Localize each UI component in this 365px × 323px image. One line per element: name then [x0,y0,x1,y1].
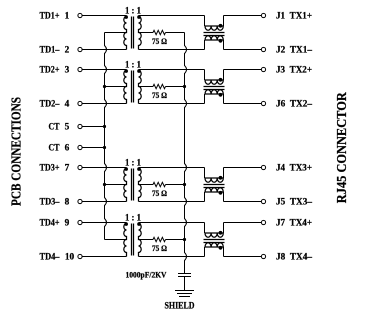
choke L1 bottom winding [205,36,224,40]
choke L2 top phasing dot [219,78,223,82]
svg-text:J6 TX2–: J6 TX2– [276,100,312,110]
wire TD1- to T1 primary bottom [82,49,126,51]
choke L1 core [204,33,225,36]
choke L2 input leads [204,70,206,104]
transformer T4 secondary phasing dot [137,222,141,226]
terminal pin 6 (CT) [78,145,82,149]
choke L2 core [204,87,225,90]
wire choke L1 to J1 [224,15,262,17]
wire capacitor to ground [184,277,186,291]
svg-text:TD1+: TD1+ [40,12,60,22]
svg-text:5: 5 [65,123,70,133]
wire TD3- to T3 primary bottom [82,201,126,203]
terminal pin 10 (TD4-) [78,254,82,258]
wire choke L2 to J6 [224,103,262,105]
terminal pin 9 (TD4+) [78,220,82,224]
svg-text:SHIELD: SHIELD [165,301,195,311]
transformer T3 secondary phasing dot [137,167,141,171]
terminal J3 (TX2+) [261,67,265,71]
wire T1 secondary bottom to choke L1 [139,49,205,51]
choke L1 output leads [223,16,225,50]
transformer T2 core [132,71,134,103]
svg-text:J1 TX1+: J1 TX1+ [276,12,312,22]
svg-text:CT: CT [49,123,61,133]
wire T1 primary center tap to CT bus [105,32,127,34]
transformer T3 core [132,169,134,201]
transformer T2 secondary winding [139,70,142,104]
wire CT pin 5 to CT bus [82,126,104,128]
choke L2 output leads [223,70,225,104]
transformer T4 primary winding [124,223,127,257]
terminal pin 7 (TD3+) [78,165,82,169]
wire choke L4 to J7 [224,222,262,224]
svg-text:7: 7 [65,164,70,174]
svg-text:TD4+: TD4+ [40,219,60,229]
transformer T3 primary phasing dot [124,167,128,171]
terminal pin 4 (TD2-) [78,101,82,105]
choke L3 top phasing dot [219,176,223,180]
svg-text:J4 TX3+: J4 TX3+ [276,164,312,174]
terminal J5 (TX3-) [261,199,265,203]
svg-text:J3 TX2+: J3 TX2+ [276,66,312,76]
wire TD2+ to T2 primary top [82,69,126,71]
transformer T1 secondary phasing dot [137,15,141,19]
svg-text:6: 6 [65,144,70,154]
svg-text:3: 3 [65,66,70,76]
terminal J2 (TX1-) [261,47,265,51]
terminal pin 3 (TD2+) [78,67,82,71]
wire T2 secondary top to choke L2 [139,69,205,71]
transformer T3 secondary winding [139,168,142,202]
choke L3 output leads [223,168,225,202]
capacitor C1 1000pF/2KV plates [178,274,191,277]
resistor R3 75 ohm on T3 secondary center tap [139,182,185,186]
wire choke L1 to J2 [224,49,262,51]
wire T3 primary center tap to CT bus [105,184,127,186]
wire T4 primary center tap to CT bus [105,239,127,241]
wire T3 secondary top to choke L3 [139,167,205,169]
wire TD4+ to T4 primary top [82,222,126,224]
svg-text:1000pF/2KV: 1000pF/2KV [126,271,167,280]
wire choke L4 to J8 [224,256,262,258]
resistor R1 75 ohm on T1 secondary center tap [139,30,185,34]
svg-text:8: 8 [65,198,70,208]
transformer T4 primary phasing dot [124,222,128,226]
svg-text:J2 TX1–: J2 TX1– [276,46,312,56]
wire choke L3 to J4 [224,167,262,169]
choke L2 bottom winding [205,90,224,94]
svg-text:9: 9 [65,219,70,229]
junction CT bus / pin 6 [103,146,106,149]
choke L2 top winding [205,80,224,84]
choke L3 bottom winding [205,188,224,192]
wire TD2- to T2 primary bottom [82,103,126,105]
wire T3 secondary bottom to choke L3 [139,201,205,203]
svg-text:J8 TX4–: J8 TX4– [276,253,312,263]
junction bus / R2 [183,85,186,88]
wire CT pin 6 to CT bus [82,147,104,149]
choke L4 input leads [204,223,206,257]
choke L1 top winding [205,26,224,30]
terminal J4 (TX3+) [261,165,265,169]
transformer T1 secondary winding [139,16,142,50]
svg-text:J5 TX3–: J5 TX3– [276,198,312,208]
svg-text:TD1–: TD1– [40,46,60,56]
svg-text:10: 10 [65,253,75,263]
wire TD3+ to T3 primary top [82,167,126,169]
junction bus / R3 [183,183,186,186]
choke L1 top phasing dot [219,24,223,28]
choke L4 core [204,240,225,243]
resistor R4 75 ohm on T4 secondary center tap [139,237,185,241]
choke L4 bottom phasing dot [219,246,223,250]
choke L1 input leads [204,16,206,50]
svg-text:75 Ω: 75 Ω [152,91,168,100]
terminal J1 (TX1+) [261,13,265,17]
wire choke L3 to J5 [224,201,262,203]
svg-text:TD3+: TD3+ [40,164,60,174]
secondary center-tap bus to shield capacitor with wire hops [185,33,187,274]
transformer T4 secondary winding [139,223,142,257]
transformer T2 primary phasing dot [124,69,128,73]
terminal pin 8 (TD3-) [78,199,82,203]
choke L3 bottom phasing dot [219,191,223,195]
wire TD1+ to T1 primary top [82,15,126,17]
wire TD4- to T4 primary bottom [82,256,126,258]
choke L3 top winding [205,178,224,182]
choke L2 bottom phasing dot [219,93,223,97]
svg-text:TD2+: TD2+ [40,66,60,76]
ground symbol (shield) [175,291,194,297]
wire T2 secondary bottom to choke L2 [139,103,205,105]
svg-text:2: 2 [65,46,70,56]
choke L3 input leads [204,168,206,202]
svg-text:TD4–: TD4– [40,253,60,263]
transformer T4 core [132,224,134,256]
svg-text:CT: CT [49,144,61,154]
svg-text:PCB CONNECTIONS: PCB CONNECTIONS [10,97,25,206]
wire choke L2 to J3 [224,69,262,71]
svg-text:J7 TX4+: J7 TX4+ [276,219,312,229]
wire T2 primary center tap to CT bus [105,86,127,88]
svg-text:4: 4 [65,100,70,110]
terminal pin 5 (CT) [78,124,82,128]
choke L3 core [204,185,225,188]
svg-text:75 Ω: 75 Ω [152,37,168,46]
choke L4 output leads [223,223,225,257]
wire T4 secondary bottom to choke L4 [139,256,205,258]
resistor R2 75 ohm on T2 secondary center tap [139,84,185,88]
svg-text:1: 1 [65,12,70,22]
choke L4 bottom winding [205,243,224,247]
svg-text:TD2–: TD2– [40,100,60,110]
transformer T1 primary winding [124,16,127,50]
transformer T2 primary winding [124,70,127,104]
choke L4 top winding [205,233,224,237]
wire T4 secondary top to choke L4 [139,222,205,224]
CT bus (primary center taps to pins 5,6) with wire hops [105,33,107,240]
junction CT bus / pin 5 [103,125,106,128]
transformer T3 primary winding [124,168,127,202]
terminal J8 (TX4-) [261,254,265,258]
terminal J6 (TX2-) [261,101,265,105]
terminal pin 2 (TD1-) [78,47,82,51]
terminal J7 (TX4+) [261,220,265,224]
transformer T2 secondary phasing dot [137,69,141,73]
junction CT bus / T2 center tap [103,85,106,88]
svg-text:75 Ω: 75 Ω [152,189,168,198]
junction CT bus / T3 center tap [103,183,106,186]
wire T1 secondary top to choke L1 [139,15,205,17]
svg-text:RJ45 CONNECTOR: RJ45 CONNECTOR [335,91,350,203]
transformer T1 core [132,17,134,49]
choke L4 top phasing dot [219,231,223,235]
svg-text:TD3–: TD3– [40,198,60,208]
svg-text:75 Ω: 75 Ω [152,244,168,253]
transformer T1 primary phasing dot [124,15,128,19]
junction bus / R4 [183,238,186,241]
terminal pin 1 (TD1+) [78,13,82,17]
choke L1 bottom phasing dot [219,39,223,43]
